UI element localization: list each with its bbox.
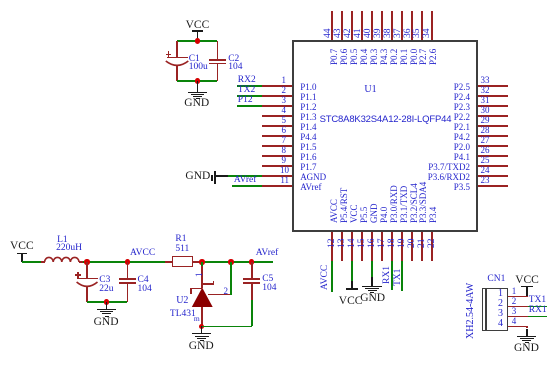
wire TX2 bbox=[237, 95, 263, 97]
pin 6 P4.4 bbox=[262, 135, 292, 137]
wire C3-C4 bottom rail bbox=[87, 301, 127, 303]
net label RX1 bbox=[529, 306, 547, 316]
pin 15 P5.5 bbox=[361, 232, 363, 261]
pin 4 CN1 bbox=[508, 326, 528, 328]
pin 37 P0.1 bbox=[401, 11, 403, 40]
capacitor C3 22u electrolytic bbox=[86, 262, 88, 278]
ground GND below U2 bbox=[201, 326, 203, 333]
net label P12 bbox=[238, 96, 253, 106]
wire U2 ref to rail bbox=[230, 262, 232, 295]
pin 12 AVCC bbox=[331, 232, 333, 261]
wire R1 to AVref bbox=[202, 261, 273, 263]
pin 2 P1.1 bbox=[262, 95, 292, 97]
pin 31 P2.3 bbox=[478, 105, 508, 107]
wire AVref bbox=[232, 185, 263, 187]
power VCC (top-left supply) bbox=[186, 20, 210, 32]
pin 17 P4.0 bbox=[381, 232, 383, 261]
wire bottom rail C1-C2 bbox=[177, 80, 217, 82]
pin 1 CN1 bbox=[508, 296, 528, 298]
pin 18 P3.0/RXD bbox=[391, 232, 393, 261]
transistor U2 TL431 shunt reference bbox=[201, 262, 203, 266]
wire RX1 at pin 18 bbox=[391, 261, 393, 290]
power VCC (analog rail) bbox=[10, 241, 34, 253]
pin 19 P3.1/TXD bbox=[401, 232, 403, 261]
op IC U1 STC8A8K32S4A12 body bbox=[292, 40, 478, 232]
pin 32 P2.4 bbox=[478, 95, 508, 97]
capacitor C2 104 bbox=[217, 41, 219, 59]
pin 25 P3.7/TXD2 bbox=[478, 165, 508, 167]
pin 22 P3.4 bbox=[431, 232, 433, 261]
wire CN1 pin 4 to ground bbox=[526, 326, 528, 328]
net label TX1 bbox=[529, 296, 546, 306]
junction U2 cathode bbox=[199, 259, 204, 264]
net label AVCC bbox=[130, 249, 155, 259]
resistor R1 511 bbox=[165, 261, 172, 263]
net label XH2.54-4AW rotated bbox=[466, 283, 476, 339]
junction U2 anode bbox=[199, 324, 204, 329]
ground GND at AGND pin bbox=[185, 171, 210, 183]
wire VCC at pin 14 bbox=[351, 261, 353, 281]
net label TX1 rotated bbox=[394, 269, 404, 286]
pin 42 P0.5 bbox=[351, 11, 353, 40]
wire AGND bbox=[228, 175, 263, 177]
wire TX1 at pin 19 bbox=[401, 261, 403, 291]
net label RX1 rotated bbox=[383, 266, 393, 284]
wire GND at pin 16 bbox=[371, 261, 373, 277]
pin 14 VCC bbox=[351, 232, 353, 261]
pin 34 P2.6 bbox=[431, 11, 433, 40]
pin 2 CN1 bbox=[508, 306, 528, 308]
junction top rail bbox=[195, 38, 200, 43]
pin 36 P0.0 bbox=[411, 11, 413, 40]
pin 28 P4.2 bbox=[478, 135, 508, 137]
wire top rail C1-C2 bbox=[177, 40, 217, 42]
pin 39 P4.3 bbox=[381, 11, 383, 40]
pin 27 P2.0 bbox=[478, 145, 508, 147]
wire U2 anode bbox=[201, 307, 203, 326]
power VCC at CN1 pin 1 bbox=[515, 275, 539, 287]
pin 35 P2.7 bbox=[421, 11, 423, 40]
ground GND below C3/C4 bbox=[106, 302, 108, 309]
pin 40 P0.3 bbox=[371, 11, 373, 40]
wire TX1 bbox=[528, 306, 547, 308]
pin 10 AGND bbox=[262, 175, 292, 177]
pin 20 P3.2/SCL4 bbox=[411, 232, 413, 261]
wire RX1 bbox=[528, 316, 547, 318]
power VCC at pin 14 bbox=[351, 281, 353, 290]
capacitor C4 104 bbox=[127, 262, 129, 279]
pin 7 P1.5 bbox=[262, 145, 292, 147]
pin 9 P1.7 bbox=[262, 165, 292, 167]
junction U2 ref bbox=[228, 259, 233, 264]
pin 4 P1.3 bbox=[262, 115, 292, 117]
inductor L1 220uH bbox=[41, 261, 45, 263]
net label AVref bbox=[256, 249, 278, 259]
pin 2 U2 reference bbox=[208, 294, 231, 296]
net label AVref (pin 11) bbox=[234, 176, 256, 186]
pin 13 P5.4/RST bbox=[341, 232, 343, 261]
wire RX2 bbox=[237, 85, 263, 87]
wire AVCC at pin 12 bbox=[331, 261, 333, 292]
junction bottom rail tap bbox=[104, 299, 109, 304]
wire anode to C5 bottom bbox=[202, 326, 252, 328]
pin 11 AVref bbox=[262, 185, 292, 187]
net label AVCC rotated bbox=[321, 265, 331, 290]
pin 3 P1.2 bbox=[262, 105, 292, 107]
pin 44 P0.7 bbox=[331, 11, 333, 40]
wire P12 bbox=[237, 105, 263, 107]
ground GND below C1/C2 bbox=[197, 81, 199, 92]
capacitor C1 100u electrolytic bbox=[176, 41, 178, 58]
pin 8 P1.6 bbox=[262, 155, 292, 157]
pin 38 P0.2 bbox=[391, 11, 393, 40]
pin 24 P3.6/RXD2 bbox=[478, 175, 508, 177]
ground GND at pin 16 bbox=[371, 277, 373, 287]
pin 41 P0.4 bbox=[361, 11, 363, 40]
pin 26 P4.1 bbox=[478, 155, 508, 157]
wire L1 to R1 bbox=[83, 261, 165, 263]
net label RX2 bbox=[238, 76, 256, 86]
pin 30 P2.2 bbox=[478, 115, 508, 117]
connector CN1 body bbox=[487, 275, 505, 285]
pin 3 CN1 bbox=[508, 316, 528, 318]
ground GND at CN1 bbox=[526, 329, 528, 336]
pin 5 P1.4 bbox=[262, 125, 292, 127]
capacitor C5 104 bbox=[251, 262, 253, 279]
pin 23 P3.5 bbox=[478, 185, 508, 187]
pin 16 GND bbox=[371, 232, 373, 261]
junction C3 tap bbox=[84, 259, 89, 264]
junction bottom rail bbox=[195, 78, 200, 83]
junction C5/AVref bbox=[249, 259, 254, 264]
net label TX2 bbox=[238, 86, 255, 96]
pin 1 P1.0 bbox=[262, 85, 292, 87]
pin 43 P0.6 bbox=[341, 11, 343, 40]
junction C4 tap bbox=[125, 259, 130, 264]
pin 33 P2.5 bbox=[478, 85, 508, 87]
pin 29 P2.1 bbox=[478, 125, 508, 127]
wire VCC to L1 bbox=[22, 261, 41, 263]
pin 21 P3.3/SDA4 bbox=[421, 232, 423, 261]
